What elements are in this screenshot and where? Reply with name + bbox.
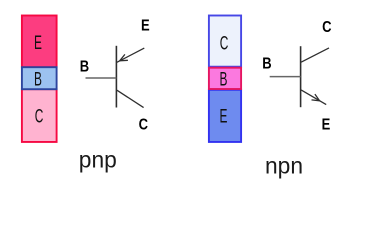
svg-text:C: C [139,117,148,134]
npn collector wire [301,48,329,62]
pnp collector wire [117,90,144,107]
pnp emitter arrowhead (points toward base) [120,54,128,60]
pnp base lead wire [86,77,117,79]
pnp collector region block C [22,89,57,142]
svg-text:E: E [220,107,228,127]
svg-text:C: C [35,107,44,127]
svg-text:C: C [220,34,229,54]
svg-text:npn: npn [265,152,303,178]
svg-text:B: B [262,56,271,73]
svg-text:E: E [141,18,150,35]
svg-text:C: C [322,19,331,36]
svg-text:pnp: pnp [79,147,117,173]
svg-text:B: B [80,58,89,75]
npn collector region block C [209,16,241,67]
npn emitter arrowhead (points away from base) [312,94,320,101]
pnp transistor symbol: base bar [115,46,117,108]
pnp emitter wire [117,48,144,62]
svg-text:B: B [220,70,228,90]
svg-text:B: B [34,70,42,90]
npn emitter region block E [209,90,241,142]
npn emitter wire [301,90,326,105]
npn base region block B [209,68,241,89]
svg-text:E: E [322,116,331,133]
svg-text:E: E [34,33,42,53]
npn transistor symbol: base bar [300,46,302,107]
pnp base region block B [22,67,57,89]
pnp emitter region block E [22,16,57,68]
npn base lead wire [270,76,301,78]
